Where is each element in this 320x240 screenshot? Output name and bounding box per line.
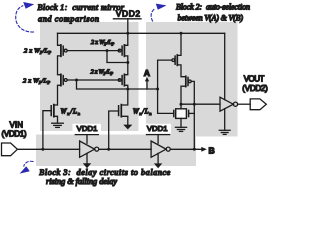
node dot VIN / N1 gate [41, 148, 44, 151]
wire N1 gate to VIN line [43, 111, 51, 150]
VDD1 bar for U2 [147, 134, 170, 136]
ground arrow below N2 [123, 125, 132, 130]
svg-text:VDD1: VDD1 [77, 124, 98, 133]
ground below N1 [52, 123, 64, 127]
wire M1 source to ground [180, 118, 182, 127]
ground below U3 [219, 130, 230, 134]
inverter U2 (second delay) [151, 141, 170, 157]
block 2 shaded region [146, 22, 238, 137]
transistor M1 in box (thick-oxide follower) [174, 109, 195, 119]
svg-text:VDD1: VDD1 [147, 124, 168, 133]
svg-text:between V(A) & V(B): between V(A) & V(B) [178, 13, 244, 22]
svg-text:2 x WP/LP: 2 x WP/LP [91, 39, 115, 46]
svg-text:Block 2: auto-selection: Block 2: auto-selection [176, 3, 250, 12]
svg-text:2 x WP/LP: 2 x WP/LP [91, 69, 114, 76]
annotation arrow to Block 1 [16, 2, 34, 32]
svg-text:VIN: VIN [10, 120, 24, 129]
block 1 shaded region [40, 22, 139, 131]
node dot gate row2 tap [75, 79, 78, 82]
node dot A at block2 riser [156, 88, 159, 91]
wire VDD1 to U2 [157, 135, 159, 144]
node dot U1-U2 / N2 gate [107, 148, 110, 151]
node dot rail / mid column [126, 32, 129, 35]
ground arrow below U2 [154, 163, 162, 168]
wire left column (P1,P2,N1 source/drain path) [54, 33, 61, 123]
svg-text:Block 3: delay circuits to ba: Block 3: delay circuits to balance [39, 168, 170, 177]
svg-text:(VDD2): (VDD2) [242, 84, 268, 93]
svg-text:2 x WP/LP: 2 x WP/LP [24, 48, 51, 55]
node B arrowhead [201, 147, 207, 152]
wire VDD2 rail [58, 32, 225, 34]
wire output node to inverter U3 [181, 103, 220, 105]
wire gate-drain tie of P3 [107, 51, 128, 63]
svg-text:rising & falling delay: rising & falling delay [46, 177, 117, 186]
svg-text:(VDD1): (VDD1) [2, 130, 27, 139]
wire node A (gate row2 to P4 drain to block2) [77, 80, 158, 89]
annotation arrow to Block 3 [20, 161, 33, 173]
annotation arrow to Block 2 [151, 4, 166, 21]
svg-text:VOUT: VOUT [244, 74, 265, 83]
wire VIN to inverter U1 [17, 148, 79, 150]
VOUT port [250, 99, 266, 110]
node dot B / P6 gate [193, 148, 196, 151]
transistor P4 (2xWp/Lp, lower right) [118, 74, 124, 85]
wire U1 to U2 [99, 148, 151, 150]
transistor P2 (2xWp/Lp, lower left) [61, 74, 67, 85]
wire P6 gate to node B [191, 81, 194, 149]
node dot block2 column at output node [180, 103, 183, 106]
svg-text:Block 1: current mirror: Block 1: current mirror [38, 3, 125, 12]
transistor P6 (gate=B, block2) [186, 76, 191, 86]
wire block2 column (P5,P6 source/drain path) [177, 33, 186, 104]
node dot A at mid column [126, 88, 129, 91]
inverter U3 (output, VDD2 domain) [220, 97, 238, 111]
white patch behind VDD1 label 1 [73, 124, 102, 134]
wire VDD1 to U1 [86, 135, 88, 144]
node dot gate row1 tie [106, 49, 109, 52]
transistor P1 (2xWp/Lp current mirror, top left) [61, 45, 67, 56]
wire mid column (P3,P4,N2 source/drain path) [121, 33, 128, 124]
wire U3 ground [224, 109, 226, 130]
wire VDD2 bar to rail [127, 19, 129, 34]
node dot P6 gate at output node [193, 103, 196, 106]
wire U1 ground [86, 153, 88, 163]
node dot P3 drain tie [126, 61, 129, 64]
wire U3 output to VOUT port [238, 103, 251, 105]
svg-text:B: B [209, 146, 215, 156]
ground below M1 [175, 127, 186, 131]
wire N2 gate to delay chain [109, 111, 119, 149]
wire VDD2 to output inverter [224, 33, 226, 99]
svg-text:VDD2: VDD2 [116, 9, 141, 19]
VIN port [2, 143, 18, 156]
node dot rail / block2 column [180, 32, 183, 35]
node A arrow [146, 81, 148, 89]
ground arrow below U1 [83, 163, 91, 168]
wire U2 output node B [170, 148, 201, 150]
inverter U1 (first delay) [80, 141, 99, 157]
wire gate row2 P2-P4 [67, 79, 119, 81]
svg-text:2 x WP/LP: 2 x WP/LP [23, 77, 50, 84]
svg-text:A: A [144, 68, 150, 78]
VDD2 supply bar [113, 18, 141, 20]
block 3 shaded band [36, 135, 196, 167]
white patch behind VDD1 label 2 [143, 124, 171, 134]
wire U2 ground [157, 153, 159, 163]
svg-text:and comparison: and comparison [38, 14, 99, 23]
wire gate row1 P1-P3 [67, 50, 119, 52]
transistor P5 (gate=A, block2) [172, 55, 177, 65]
transistor P3 (2xWp/Lp diode-connected, top right) [118, 45, 124, 56]
wire P5 gate riser to node A [158, 60, 174, 113]
VDD1 bar for U1 [75, 134, 98, 136]
transistor N2 (Wn/Ln, right) [119, 105, 122, 117]
transistor N1 (Wn/Ln, left) [51, 105, 54, 117]
wire M1 drain to output node [180, 104, 182, 109]
